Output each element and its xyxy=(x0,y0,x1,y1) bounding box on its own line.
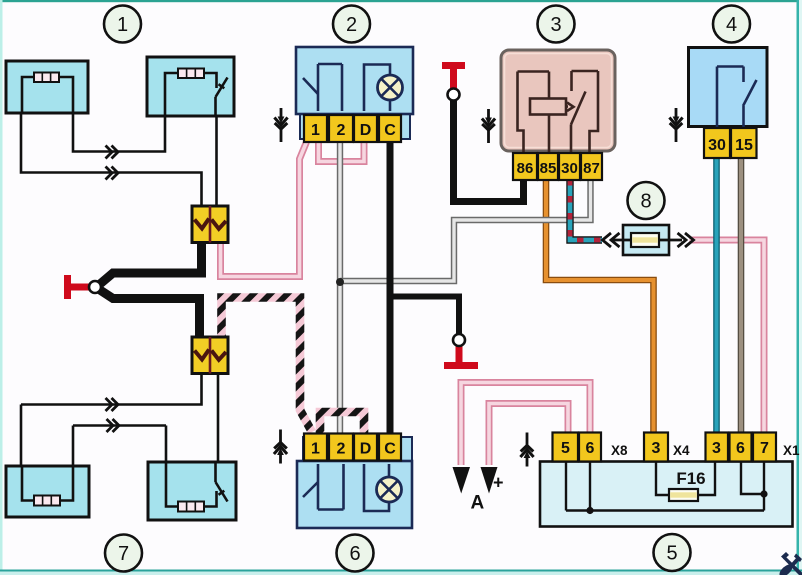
svg-text:+: + xyxy=(493,473,504,493)
svg-text:5: 5 xyxy=(666,543,677,565)
svg-text:6: 6 xyxy=(349,543,360,565)
svg-text:D: D xyxy=(360,122,372,139)
svg-text:2: 2 xyxy=(337,441,346,458)
svg-text:X8: X8 xyxy=(611,443,628,458)
svg-text:1: 1 xyxy=(311,441,320,458)
svg-text:F16: F16 xyxy=(676,469,705,488)
svg-text:86: 86 xyxy=(517,160,534,177)
svg-text:2: 2 xyxy=(346,14,357,36)
svg-text:3: 3 xyxy=(550,14,561,36)
svg-text:1: 1 xyxy=(311,122,320,139)
svg-text:4: 4 xyxy=(726,14,737,36)
svg-text:7: 7 xyxy=(760,440,769,457)
svg-text:87: 87 xyxy=(583,160,600,177)
svg-text:2: 2 xyxy=(337,122,346,139)
svg-text:X4: X4 xyxy=(673,443,690,458)
svg-text:7: 7 xyxy=(118,543,129,565)
svg-text:D: D xyxy=(360,441,372,458)
svg-text:30: 30 xyxy=(708,137,726,154)
svg-text:6: 6 xyxy=(736,440,745,457)
svg-text:3: 3 xyxy=(712,440,721,457)
svg-text:6: 6 xyxy=(586,440,595,457)
svg-text:85: 85 xyxy=(540,160,557,177)
svg-text:C: C xyxy=(384,122,396,139)
svg-text:3: 3 xyxy=(652,440,661,457)
svg-text:30: 30 xyxy=(561,160,578,177)
svg-text:8: 8 xyxy=(640,191,651,213)
svg-text:C: C xyxy=(384,441,396,458)
svg-text:1: 1 xyxy=(117,14,128,36)
svg-text:A: A xyxy=(471,493,485,514)
svg-text:X1: X1 xyxy=(783,443,800,458)
svg-text:15: 15 xyxy=(735,137,753,154)
svg-text:5: 5 xyxy=(561,440,570,457)
